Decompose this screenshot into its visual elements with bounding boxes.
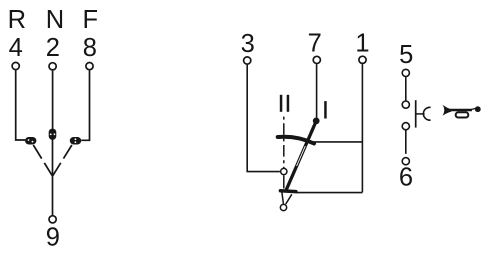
wire terminal 7 to lever tip bbox=[316, 64, 318, 118]
wire common to terminal 9 bbox=[52, 139, 54, 216]
svg-text:9: 9 bbox=[46, 224, 60, 252]
terminal circle 4 bbox=[12, 62, 19, 69]
terminal circle 7 bbox=[313, 56, 320, 63]
svg-text:5: 5 bbox=[399, 41, 413, 69]
horn bell bbox=[442, 105, 451, 116]
box bottom wire bbox=[296, 192, 363, 194]
svg-text:1: 1 bbox=[355, 30, 369, 58]
horn link line bbox=[471, 108, 477, 109]
position II contact circle bbox=[281, 168, 287, 174]
lever shaft bbox=[286, 121, 316, 191]
stem below position II contact bbox=[283, 175, 285, 188]
terminal circle 3 bbox=[244, 57, 251, 64]
contact pad N (middle pill) bbox=[49, 129, 57, 140]
position label II bbox=[280, 95, 289, 112]
box top wire bbox=[309, 141, 362, 143]
terminal circle 5 bbox=[402, 69, 409, 76]
dashed selector wire left bbox=[33, 145, 52, 176]
button bridge bar bbox=[415, 100, 417, 127]
button stem bbox=[416, 113, 425, 115]
svg-text:6: 6 bbox=[399, 163, 413, 191]
svg-text:8: 8 bbox=[83, 34, 97, 62]
lever leg left bbox=[282, 192, 284, 203]
contact pad R (left pill) bbox=[25, 137, 36, 145]
svg-text:2: 2 bbox=[46, 34, 60, 62]
button fixed contact top bbox=[402, 101, 409, 108]
terminal circle 6 bbox=[402, 158, 409, 165]
wire terminal 5 to button contact bbox=[405, 77, 407, 101]
wire button contact to terminal 6 bbox=[405, 130, 407, 154]
terminal circle 1 bbox=[359, 56, 366, 63]
horn mouthpiece bbox=[475, 106, 481, 112]
movement arc bbox=[278, 137, 314, 144]
contact pad F (right pill) bbox=[70, 137, 81, 145]
wire terminal 3 to position II contact bbox=[247, 65, 280, 172]
svg-text:R: R bbox=[8, 6, 26, 34]
lever shaft highlight bbox=[297, 146, 306, 166]
lever bottom bar bbox=[280, 189, 296, 193]
position label I bbox=[324, 101, 327, 118]
dashed selector wire right bbox=[53, 145, 72, 176]
horn top tube bbox=[450, 109, 472, 112]
svg-text:N: N bbox=[46, 6, 64, 34]
dash-dot position II axis bbox=[283, 117, 285, 168]
pivot circle bbox=[280, 204, 286, 210]
button fixed contact bottom bbox=[402, 123, 409, 130]
svg-text:7: 7 bbox=[308, 30, 322, 58]
terminal circle 8 bbox=[86, 63, 93, 70]
wire terminal 2 to middle contact bbox=[52, 71, 54, 130]
svg-text:3: 3 bbox=[241, 30, 255, 58]
wire terminal 4 to left contact bbox=[16, 70, 26, 140]
terminal circle 2 bbox=[49, 63, 56, 70]
svg-text:4: 4 bbox=[9, 34, 23, 62]
svg-text:F: F bbox=[83, 6, 99, 34]
lever tip blob bbox=[313, 118, 320, 125]
button cap arc bbox=[423, 107, 430, 120]
wire terminal 1 / box right bbox=[361, 64, 363, 192]
terminal circle 9 bbox=[49, 216, 56, 223]
horn body loop bbox=[456, 112, 469, 117]
wire terminal 8 to right contact bbox=[81, 71, 89, 141]
lever leg right bbox=[286, 194, 292, 204]
